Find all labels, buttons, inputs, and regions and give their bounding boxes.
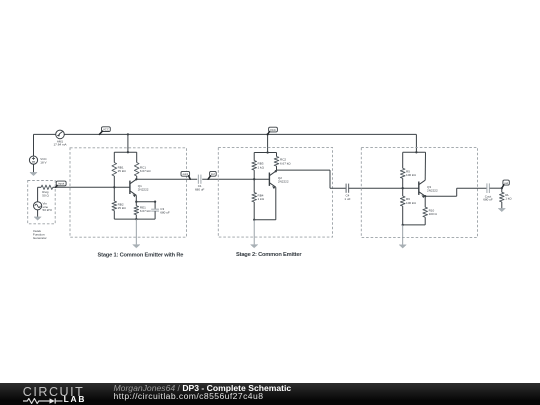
svg-text:50 Ω: 50 Ω [42,193,49,197]
svg-text:6.67 kΩ: 6.67 kΩ [280,161,291,165]
svg-text:50 kHz: 50 kHz [43,208,53,212]
svg-text:input: input [58,182,64,186]
svg-text:100 Ω: 100 Ω [429,212,438,216]
svg-text:1 kΩ: 1 kΩ [258,165,265,169]
svg-text:Stage 2: Common Emitter: Stage 2: Common Emitter [236,252,302,258]
svg-text:in2: in2 [211,172,215,176]
svg-text:1 kΩ: 1 kΩ [258,197,265,201]
svg-text:VCC: VCC [270,128,276,132]
svg-text:VCC: VCC [103,127,109,131]
svg-text:out1: out1 [183,172,189,176]
svg-text:1 kΩ: 1 kΩ [505,197,512,201]
svg-text:2N2222: 2N2222 [138,187,149,191]
svg-text:6.67 kΩ: 6.67 kΩ [140,169,151,173]
svg-text:Generator: Generator [33,236,47,240]
svg-text:18 V: 18 V [40,160,47,164]
svg-text:1 uF: 1 uF [344,197,350,201]
svg-text:2N2222: 2N2222 [427,188,438,192]
svg-text:680 uF: 680 uF [160,210,170,214]
svg-text:100 kΩ: 100 kΩ [406,173,416,177]
svg-text:17.64 mA: 17.64 mA [53,143,67,147]
svg-text:out: out [504,181,508,185]
svg-text:680 uF: 680 uF [195,188,205,192]
svg-text:25 kΩ: 25 kΩ [118,206,127,210]
svg-text:680 uF: 680 uF [483,198,493,202]
svg-text:2N2222: 2N2222 [278,179,289,183]
svg-text:6.67 kΩ: 6.67 kΩ [140,209,151,213]
svg-text:25 kΩ: 25 kΩ [118,169,127,173]
svg-text:Stage 1: Common Emitter with R: Stage 1: Common Emitter with Re [98,253,184,259]
svg-text:100 kΩ: 100 kΩ [406,201,416,205]
